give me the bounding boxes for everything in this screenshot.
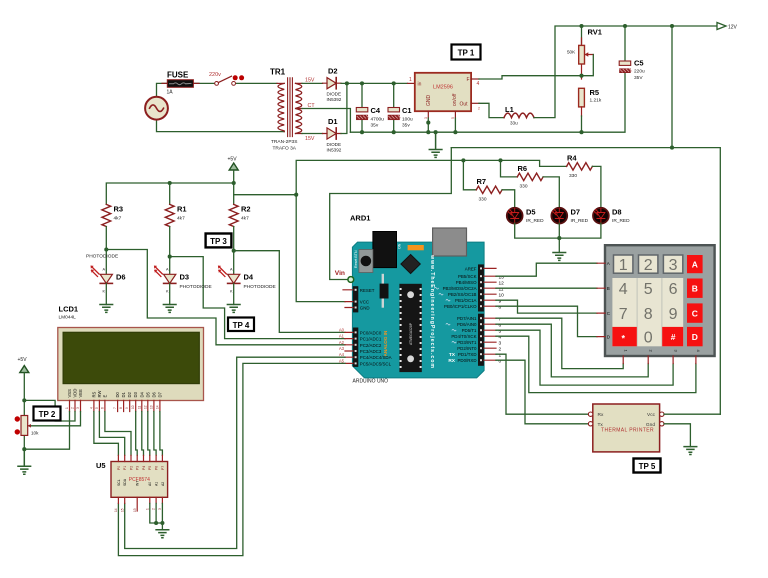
- svg-text:PHOTODIODE: PHOTODIODE: [86, 254, 118, 260]
- svg-text:TX: TX: [449, 352, 456, 358]
- svg-text:9: 9: [669, 306, 678, 323]
- svg-text:R5: R5: [590, 88, 600, 97]
- svg-text:D8: D8: [612, 208, 622, 217]
- crystal: [382, 275, 384, 307]
- LCD screen: [63, 332, 199, 383]
- power arrow +12V: [717, 23, 726, 30]
- svg-text:13: 13: [133, 508, 137, 512]
- POWER SECTION: [145, 23, 737, 415]
- svg-text:Out: Out: [459, 102, 468, 108]
- LCD LM044L frame: [58, 328, 204, 401]
- U5 bottom pin names: [117, 478, 165, 486]
- power jack: [373, 232, 397, 268]
- svg-text:A0: A0: [339, 327, 345, 332]
- svg-text:C: C: [692, 309, 698, 319]
- wire E to U5 P2: [105, 412, 131, 456]
- wire pot wiper to VEE: [30, 412, 80, 426]
- TP 1 label: [452, 45, 481, 60]
- TP 4 label: [228, 318, 254, 332]
- key column beige 4 7 *: [612, 278, 636, 346]
- svg-text:D3: D3: [133, 391, 138, 397]
- ground power rail: [429, 132, 442, 157]
- wire gnd to VSS: [24, 412, 69, 450]
- svg-text:A: A: [103, 268, 106, 272]
- ground D3: [163, 305, 176, 313]
- analog pin net labels A0-A5: [339, 327, 345, 363]
- svg-text:9: 9: [125, 407, 129, 409]
- resistor R1: [165, 204, 174, 226]
- svg-text:3: 3: [499, 340, 502, 346]
- svg-text:LM2596: LM2596: [433, 85, 453, 91]
- svg-text:3: 3: [669, 257, 678, 274]
- svg-text:RX: RX: [448, 358, 455, 364]
- pot RV2 10k: [21, 416, 28, 436]
- resistor R6: [517, 173, 543, 180]
- svg-text:A3: A3: [339, 346, 345, 351]
- svg-text:11: 11: [137, 405, 141, 409]
- svg-text:PHOTODIODE: PHOTODIODE: [180, 284, 212, 290]
- wire pin9 to keypad row C: [496, 300, 597, 313]
- svg-text:12: 12: [143, 405, 147, 409]
- svg-text:PB4/MISO: PB4/MISO: [456, 280, 477, 285]
- svg-text:11: 11: [499, 286, 504, 292]
- wire led cathodes: [515, 223, 601, 252]
- reset button: [359, 250, 373, 273]
- svg-text:P0: P0: [117, 466, 121, 470]
- pin GND lead: [427, 111, 429, 118]
- svg-text:A: A: [607, 261, 610, 266]
- fuse FUSE: [162, 82, 199, 84]
- svg-text:1A: 1A: [167, 90, 174, 96]
- svg-text:DIODE: DIODE: [327, 142, 342, 147]
- svg-text:2: 2: [499, 346, 502, 352]
- wire L1 to +12V node: [534, 26, 717, 118]
- U5 bottom pin numbers: [114, 508, 162, 512]
- svg-text:P6: P6: [155, 466, 159, 470]
- svg-text:RS: RS: [91, 391, 96, 397]
- resistor R4: [567, 163, 593, 170]
- svg-text:D3: D3: [180, 273, 190, 282]
- svg-text:ARDUINO UNO: ARDUINO UNO: [353, 379, 389, 385]
- svg-text:7: 7: [499, 316, 502, 322]
- svg-text:6: 6: [499, 322, 502, 328]
- wire +5V stem lcd: [23, 373, 25, 450]
- svg-text:VEE: VEE: [78, 389, 83, 398]
- svg-text:RW: RW: [97, 391, 102, 398]
- KEYPAD: [597, 245, 715, 363]
- icsp diamond: [401, 255, 420, 274]
- mcu IC: [399, 284, 421, 372]
- wire R3 to D6: [106, 227, 345, 345]
- key B: [687, 279, 703, 298]
- svg-text:R2: R2: [241, 205, 251, 214]
- Arduino board ARD1: [352, 242, 484, 378]
- svg-text:PC2/ADC2: PC2/ADC2: [360, 343, 382, 348]
- svg-text:D6: D6: [151, 391, 156, 397]
- keypad row pin stubs: [597, 263, 605, 336]
- pin Gnd: [660, 422, 664, 426]
- svg-text:AREF: AREF: [465, 266, 477, 271]
- svg-text:Reset BTN: Reset BTN: [354, 250, 358, 268]
- wire D4 to U5 P4: [142, 412, 144, 456]
- svg-text:+5V: +5V: [228, 157, 238, 163]
- svg-text:D7: D7: [157, 391, 162, 397]
- svg-text:3: 3: [76, 407, 80, 409]
- key hash: [662, 327, 683, 346]
- svg-text:R1: R1: [177, 205, 187, 214]
- wire 12V to Vin: [330, 148, 452, 280]
- svg-text:A0: A0: [148, 482, 152, 486]
- U5 top pin stubs: [118, 455, 162, 461]
- wire D4 to gnd: [233, 283, 235, 304]
- usb connector: [433, 228, 467, 256]
- key column beige 5 8 0: [637, 278, 661, 346]
- ground D6: [100, 305, 113, 313]
- svg-text:P5: P5: [148, 466, 152, 470]
- svg-text:L1: L1: [505, 105, 514, 114]
- svg-text:INT: INT: [136, 481, 140, 486]
- thermal printer TP1 module: [593, 404, 660, 452]
- AC source V1: [145, 97, 168, 120]
- svg-text:in: in: [418, 82, 422, 88]
- svg-text:K: K: [103, 290, 106, 294]
- ground led row: [553, 253, 566, 261]
- svg-text:RV1: RV1: [588, 28, 602, 37]
- svg-text:4k7: 4k7: [241, 216, 249, 222]
- wire R6 tap: [501, 160, 518, 177]
- svg-text:1: 1: [145, 508, 149, 510]
- pin stubs left: [343, 290, 353, 364]
- svg-text:8: 8: [499, 304, 502, 310]
- svg-text:B: B: [607, 286, 610, 291]
- TP 2 label: [34, 407, 61, 421]
- INTERCONNECT WIRES: [118, 263, 696, 555]
- potentiometer RV1: [581, 26, 583, 44]
- wire R7 tap: [463, 160, 476, 189]
- wire +5V to VDD: [24, 400, 75, 421]
- wire D6 to U5 P6: [154, 412, 156, 456]
- wire pin4 to keypad col4: [496, 336, 696, 392]
- capacitor C5: [624, 26, 626, 61]
- svg-text:35v: 35v: [371, 123, 379, 129]
- pin Vin circle: [348, 277, 354, 283]
- svg-text:14: 14: [114, 508, 118, 512]
- svg-text:*: *: [621, 334, 625, 344]
- wire R7 to D5: [502, 190, 515, 208]
- svg-text:VCC: VCC: [360, 300, 369, 305]
- svg-text:TRAFO 3A: TRAFO 3A: [273, 146, 297, 152]
- svg-text:SCL: SCL: [117, 479, 121, 486]
- diode D2: [327, 78, 336, 89]
- regulator U1 LM2596: [408, 82, 415, 84]
- svg-text:PD5/T1: PD5/T1: [462, 328, 477, 333]
- svg-text:FUSE: FUSE: [167, 71, 189, 80]
- svg-text:TP 2: TP 2: [39, 410, 56, 419]
- svg-text:PB3/MOSI/OC2A: PB3/MOSI/OC2A: [443, 286, 477, 291]
- key C: [687, 303, 703, 322]
- wire RW to U5 P1: [99, 412, 124, 456]
- wire R4 to D8: [592, 166, 601, 208]
- svg-text:P1: P1: [123, 466, 127, 470]
- keypad row labels: [607, 261, 611, 339]
- capacitor C1: [388, 108, 400, 112]
- svg-text:14: 14: [155, 405, 159, 409]
- svg-text:LCD1: LCD1: [59, 305, 79, 314]
- svg-text:1: 1: [499, 352, 502, 358]
- svg-text:A2: A2: [339, 340, 345, 345]
- svg-text:13: 13: [499, 274, 505, 280]
- svg-text:9: 9: [499, 298, 502, 304]
- wire A4 to U5 SDA: [125, 357, 345, 548]
- svg-text:A1: A1: [339, 334, 345, 339]
- wire Gnd to ground: [664, 424, 690, 447]
- svg-text:PC1/ADC1: PC1/ADC1: [360, 337, 382, 342]
- resistor R7: [476, 186, 502, 193]
- wire D3 to U5 P3: [136, 412, 138, 456]
- svg-text:PC4/ADC4/SDA: PC4/ADC4/SDA: [360, 355, 392, 360]
- orange led bar: [408, 245, 424, 250]
- ground pot: [18, 449, 31, 474]
- svg-text:5: 5: [95, 407, 99, 409]
- svg-text:Rx: Rx: [598, 412, 604, 418]
- svg-text:330: 330: [569, 173, 577, 179]
- svg-text:ATMEGA328P: ATMEGA328P: [409, 322, 413, 345]
- inductor L1: [504, 113, 534, 118]
- svg-text:D: D: [692, 332, 698, 342]
- svg-text:ARD1: ARD1: [350, 214, 370, 223]
- svg-text:C1: C1: [402, 106, 412, 115]
- svg-text:D5: D5: [145, 391, 150, 397]
- svg-text:E: E: [102, 395, 107, 398]
- svg-text:4700u: 4700u: [371, 117, 385, 123]
- svg-text:PHOTODIODE: PHOTODIODE: [244, 284, 276, 290]
- svg-text:TP 3: TP 3: [210, 237, 227, 246]
- svg-text:4: 4: [499, 334, 502, 340]
- svg-text:PD2/INT0: PD2/INT0: [457, 346, 477, 351]
- wire pin0 RX to printer Tx: [496, 360, 588, 424]
- svg-text:50K: 50K: [567, 50, 576, 55]
- svg-text:PD0/RXD: PD0/RXD: [457, 358, 476, 363]
- svg-text:3: 3: [158, 508, 162, 510]
- svg-text:5: 5: [499, 328, 502, 334]
- svg-text:10: 10: [131, 405, 135, 409]
- svg-text:GND: GND: [426, 95, 432, 107]
- svg-text:on/off: on/off: [452, 93, 458, 106]
- svg-text:4: 4: [89, 407, 93, 409]
- wire pin6 to keypad col2: [496, 324, 648, 377]
- wire R1 to D3: [170, 227, 345, 339]
- key D: [687, 327, 703, 346]
- LCD SECTION: [15, 305, 204, 538]
- svg-text:15: 15: [120, 508, 124, 512]
- svg-text:33u: 33u: [510, 121, 518, 126]
- led D8 IR_RED: [593, 208, 609, 224]
- wire D5 to U5 P5: [148, 412, 150, 456]
- svg-text:PB2/SS/OC1B: PB2/SS/OC1B: [448, 292, 477, 297]
- svg-text:D1: D1: [121, 391, 126, 397]
- svg-text:D5: D5: [526, 208, 536, 217]
- key star: [612, 327, 636, 346]
- wire GND+onoff to rail: [428, 118, 455, 132]
- svg-text:PC0/ADC0: PC0/ADC0: [360, 330, 382, 335]
- svg-text:A: A: [230, 268, 233, 272]
- key 3: [663, 255, 682, 273]
- pin stubs right: [484, 268, 496, 360]
- wire 12V feed down: [451, 26, 720, 414]
- svg-text:12: 12: [499, 280, 505, 286]
- svg-text:PB0/ICP1/CLKO: PB0/ICP1/CLKO: [444, 304, 477, 309]
- svg-text:100u: 100u: [402, 117, 413, 123]
- svg-text:www.TheEngineeringProjects.com: www.TheEngineeringProjects.com: [429, 254, 435, 368]
- wire pin13 to keypad row A: [496, 263, 597, 276]
- svg-text:15V: 15V: [305, 78, 315, 84]
- svg-text:330: 330: [520, 184, 528, 190]
- resistor R2: [229, 204, 238, 226]
- ground printer: [684, 447, 697, 455]
- svg-text:6: 6: [669, 281, 678, 298]
- diode D1: [327, 128, 336, 139]
- ARDUINO: [335, 214, 504, 385]
- key 1: [614, 255, 633, 273]
- svg-text:K: K: [230, 290, 233, 294]
- svg-text:K: K: [166, 290, 169, 294]
- svg-text:IR_RED: IR_RED: [612, 218, 630, 224]
- svg-text:U5: U5: [96, 461, 106, 470]
- U5 bottom pin stubs: [118, 497, 162, 511]
- key column beige 6 9 #: [662, 278, 683, 346]
- IO expander U5 PCF8574: [111, 462, 168, 498]
- pin onoff lead: [454, 111, 456, 118]
- svg-text:P4: P4: [142, 466, 146, 470]
- svg-text:TP 1: TP 1: [458, 49, 475, 58]
- header strip right upper: [478, 264, 484, 311]
- wire Out to L1: [479, 103, 504, 117]
- svg-text:0: 0: [644, 330, 653, 347]
- resistor R3: [102, 204, 111, 226]
- svg-text:SDA: SDA: [123, 478, 127, 486]
- svg-text:D6: D6: [116, 273, 126, 282]
- svg-text:2: 2: [71, 407, 75, 409]
- svg-text:6: 6: [100, 407, 104, 409]
- wire rectifier output node: [341, 83, 408, 133]
- svg-text:VDD: VDD: [73, 389, 78, 398]
- svg-text:10k: 10k: [31, 431, 39, 436]
- svg-text:IR_RED: IR_RED: [526, 218, 544, 224]
- wire D6 to gnd: [105, 283, 107, 304]
- svg-text:330: 330: [479, 197, 487, 203]
- svg-text:VSS: VSS: [67, 389, 72, 398]
- ground D4: [227, 305, 240, 313]
- svg-text:B: B: [692, 284, 698, 294]
- svg-text:A2: A2: [161, 482, 165, 486]
- svg-text:PD7/AIN1: PD7/AIN1: [457, 316, 477, 321]
- wire U5 A0 A1 A2 to gnd: [150, 503, 163, 529]
- svg-text:F: F: [467, 77, 470, 83]
- wire D3 to gnd: [169, 283, 171, 304]
- svg-text:PD3/INT1: PD3/INT1: [457, 340, 477, 345]
- svg-text:+5V: +5V: [18, 357, 28, 363]
- svg-text:C4: C4: [371, 106, 381, 115]
- wire R2 to D4: [234, 227, 345, 333]
- pin Vcc: [660, 412, 664, 416]
- wire secondary taps: [302, 83, 350, 133]
- svg-text:7: 7: [619, 306, 628, 323]
- key 2: [639, 255, 658, 273]
- wire R6 to D7: [543, 177, 559, 208]
- wire pin7 to keypad col1: [496, 318, 623, 368]
- svg-text:1: 1: [619, 257, 628, 274]
- wire +5V stem and rail: [106, 170, 233, 204]
- svg-text:P2: P2: [129, 466, 133, 470]
- keypad col pin stubs: [623, 356, 696, 364]
- svg-text:2: 2: [644, 257, 653, 274]
- SENSOR SECTION: [86, 154, 630, 345]
- svg-text:R7: R7: [477, 177, 487, 186]
- resistor R5: [579, 88, 585, 107]
- svg-text:#: #: [671, 332, 676, 342]
- led D7 IR_RED: [551, 208, 567, 224]
- svg-text:A1: A1: [155, 482, 159, 486]
- svg-text:DIODE: DIODE: [327, 92, 342, 97]
- svg-text:P3: P3: [136, 466, 140, 470]
- wire pin1 TX to printer Rx: [496, 354, 588, 414]
- svg-text:35V: 35V: [634, 75, 643, 81]
- svg-text:35v: 35v: [402, 123, 410, 129]
- svg-text:13: 13: [149, 405, 153, 409]
- svg-text:15V: 15V: [305, 136, 315, 142]
- svg-text:2: 2: [152, 508, 156, 510]
- svg-text:D0: D0: [115, 391, 120, 397]
- svg-text:RESET: RESET: [360, 288, 375, 293]
- wire pin8 to keypad row D: [496, 306, 597, 336]
- svg-text:PD1/TXD: PD1/TXD: [458, 352, 477, 357]
- svg-text:D1: D1: [328, 117, 338, 126]
- pin Tx: [588, 422, 592, 426]
- svg-text:PB5/SCK: PB5/SCK: [458, 274, 477, 279]
- TP 3 label: [206, 234, 232, 248]
- svg-text:4: 4: [619, 281, 628, 298]
- svg-text:C5: C5: [634, 59, 644, 68]
- wire 0V rail: [350, 73, 625, 132]
- svg-text:A5: A5: [339, 358, 345, 363]
- svg-text:12V: 12V: [728, 24, 738, 30]
- svg-text:PD6/AIN0: PD6/AIN0: [457, 322, 477, 327]
- svg-text:8: 8: [644, 306, 653, 323]
- svg-text:IR_RED: IR_RED: [571, 218, 589, 224]
- svg-text:7: 7: [113, 407, 117, 409]
- ground U5: [156, 530, 169, 538]
- svg-text:D4: D4: [139, 391, 144, 397]
- svg-text:PD4/T0/XCK: PD4/T0/XCK: [451, 334, 476, 339]
- svg-text:R3: R3: [114, 205, 124, 214]
- svg-text:ON: ON: [398, 243, 402, 249]
- pin labels left: [360, 288, 392, 367]
- capacitor C4: [356, 108, 368, 112]
- wire D7 to U5 P7: [160, 412, 163, 456]
- svg-text:1: 1: [409, 77, 412, 83]
- svg-text:TR1: TR1: [270, 68, 286, 77]
- svg-text:R6: R6: [518, 164, 528, 173]
- svg-text:PC3/ADC3: PC3/ADC3: [360, 349, 382, 354]
- svg-text:0: 0: [499, 358, 502, 364]
- svg-text:GND: GND: [360, 306, 370, 311]
- svg-text:D2: D2: [127, 391, 132, 397]
- svg-text:1.21k: 1.21k: [590, 98, 602, 104]
- pin F lead: [471, 78, 479, 80]
- svg-text:PB1/OC1A: PB1/OC1A: [455, 298, 477, 303]
- svg-text:1: 1: [65, 407, 69, 409]
- wire AC source loop: [157, 83, 285, 131]
